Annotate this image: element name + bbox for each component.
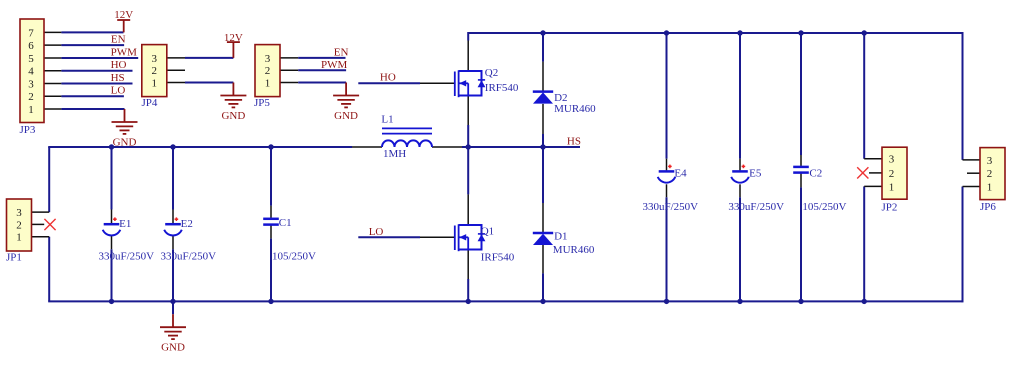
wire E2 top lead bbox=[172, 147, 174, 210]
capacitor E1 bbox=[103, 217, 121, 235]
pin D2 anode pin bbox=[542, 104, 544, 134]
pin E1 bottom pin bbox=[111, 235, 113, 249]
wire JP4 pin 3 to 12V bbox=[185, 57, 233, 59]
pin JP4 pin 1 stub bbox=[167, 82, 185, 84]
pin Q2 source bbox=[467, 95, 469, 125]
pin L1 left pin bbox=[352, 146, 382, 148]
svg-text:LO: LO bbox=[111, 85, 126, 97]
svg-text:2: 2 bbox=[889, 168, 895, 180]
junction bottom rail x=666.5 bbox=[664, 299, 669, 304]
wire E4 top lead bbox=[666, 33, 668, 159]
power 12V (JP3 pin 7) bbox=[114, 9, 133, 33]
svg-text:3: 3 bbox=[152, 53, 158, 65]
svg-text:1: 1 bbox=[152, 77, 158, 89]
svg-text:GND: GND bbox=[334, 110, 358, 122]
transistor Q2 bbox=[455, 70, 486, 97]
wire Q1 drain from HS bbox=[467, 147, 469, 194]
wire JP5 pin 1 to GND bbox=[298, 82, 346, 84]
svg-text:E1: E1 bbox=[119, 218, 131, 230]
pin D1 anode pin bbox=[542, 243, 544, 273]
no-connect X on JP1 pin 2 bbox=[44, 219, 55, 230]
pin JP1 pin 3 stub bbox=[32, 211, 50, 213]
pin E4 top pin bbox=[666, 159, 668, 171]
svg-text:C1: C1 bbox=[279, 217, 292, 229]
wire JP6 pin 1 down to bottom rail bbox=[962, 187, 964, 303]
junction top rail x=864.2 bbox=[862, 30, 867, 35]
pin E2 bottom pin bbox=[172, 235, 174, 249]
pin Q1 drain bbox=[467, 194, 469, 224]
wire HO to Q2 gate bbox=[358, 82, 420, 84]
pin Q1 gate pin bbox=[420, 236, 454, 238]
junction HS rail x=111.5 bbox=[109, 144, 114, 149]
junction HS rail x=468.2 bbox=[466, 144, 471, 149]
svg-text:12V: 12V bbox=[114, 9, 133, 21]
svg-text:EN: EN bbox=[111, 34, 126, 46]
pin JP5 pin 3 stub bbox=[280, 57, 298, 59]
pin Q2 drain bbox=[467, 41, 469, 71]
junction bottom rail x=173 bbox=[170, 299, 175, 304]
junction bottom rail x=468.2 bbox=[466, 299, 471, 304]
svg-text:1: 1 bbox=[987, 181, 993, 193]
svg-text:3: 3 bbox=[28, 78, 34, 90]
capacitor E5 bbox=[731, 165, 749, 183]
wire JP3 pin 7 bbox=[61, 31, 123, 33]
junction top rail x=543 bbox=[540, 30, 545, 35]
junction top rail x=666.5 bbox=[664, 30, 669, 35]
svg-text:330uF/250V: 330uF/250V bbox=[161, 250, 217, 262]
wire C2 top lead bbox=[800, 33, 802, 155]
junction top rail x=740 bbox=[737, 30, 742, 35]
wire JP4 pin 1 to GND bbox=[185, 82, 233, 84]
svg-text:HO: HO bbox=[380, 72, 396, 84]
pin JP3 pin 6 stub bbox=[44, 44, 61, 46]
svg-text:PWM: PWM bbox=[111, 46, 138, 58]
svg-text:1: 1 bbox=[28, 104, 34, 116]
svg-text:3: 3 bbox=[16, 207, 22, 219]
pin JP2 pin 2 stub bbox=[869, 172, 882, 174]
wire JP5 pin 2 (PWM) bbox=[298, 69, 346, 71]
pin JP6 pin 1 stub bbox=[963, 186, 981, 188]
svg-text:330uF/250V: 330uF/250V bbox=[643, 201, 699, 213]
svg-text:3: 3 bbox=[265, 53, 271, 65]
wire left input rail lower bbox=[48, 237, 50, 302]
svg-text:HS: HS bbox=[111, 72, 125, 84]
junction bottom rail x=543 bbox=[540, 299, 545, 304]
pin E5 top pin bbox=[739, 159, 741, 171]
junction bottom rail x=111.5 bbox=[109, 299, 114, 304]
pin E5 bottom pin bbox=[739, 184, 741, 197]
connector JP3 bbox=[20, 19, 45, 136]
capacitor E4 bbox=[658, 165, 676, 183]
transistor Q1 bbox=[455, 224, 486, 251]
wire E5 top lead bbox=[739, 33, 741, 159]
svg-text:6: 6 bbox=[28, 40, 34, 52]
pin C1 bottom pin bbox=[270, 225, 272, 239]
svg-text:JP6: JP6 bbox=[980, 201, 996, 213]
svg-text:3: 3 bbox=[889, 154, 895, 166]
capacitor C1 bbox=[263, 219, 279, 225]
wire right rail down to JP6 pin 3 bbox=[962, 32, 964, 160]
wire JP3 pin 1 bbox=[61, 108, 124, 110]
power 12V (JP4 pin 3) bbox=[224, 32, 243, 58]
svg-text:1MH: 1MH bbox=[383, 148, 406, 160]
junction bottom rail x=864.2 bbox=[862, 299, 867, 304]
pin JP5 pin 1 stub bbox=[280, 82, 298, 84]
wire JP5 pin 3 (EN) bbox=[298, 57, 345, 59]
connector JP4 bbox=[142, 45, 167, 109]
svg-text:E4: E4 bbox=[674, 168, 687, 180]
wire E4 bottom lead bbox=[666, 197, 668, 301]
wire HS node segment bbox=[462, 146, 580, 148]
pin JP4 pin 3 stub bbox=[167, 57, 185, 59]
wire left input rail upper bbox=[48, 147, 50, 212]
pin JP6 pin 2 stub bbox=[967, 172, 980, 174]
wire JP3 pin 2 bbox=[61, 95, 124, 97]
pin D1 cathode pin bbox=[542, 203, 544, 233]
svg-text:IRF540: IRF540 bbox=[481, 252, 515, 264]
ground GND (JP3 pin 1) bbox=[112, 109, 138, 148]
pin C2 bottom pin bbox=[800, 173, 802, 187]
pin E4 bottom pin bbox=[666, 184, 668, 197]
pin Q1 source bbox=[467, 249, 469, 279]
svg-text:5: 5 bbox=[28, 53, 34, 65]
svg-text:IRF540: IRF540 bbox=[485, 82, 519, 94]
svg-text:Q2: Q2 bbox=[485, 67, 498, 79]
wire Q2 source to HS bbox=[467, 125, 469, 147]
wire D2 anode to HS bbox=[542, 134, 544, 147]
svg-text:MUR460: MUR460 bbox=[554, 103, 596, 115]
junction HS rail x=173 bbox=[170, 144, 175, 149]
wire C1 top lead bbox=[270, 147, 272, 206]
svg-text:E5: E5 bbox=[749, 168, 762, 180]
wire JP2 pin 3 from top rail bbox=[863, 33, 865, 159]
svg-text:2: 2 bbox=[16, 219, 22, 231]
wire D2 cathode from top rail bbox=[542, 33, 544, 62]
svg-text:HO: HO bbox=[111, 59, 127, 71]
svg-text:12V: 12V bbox=[224, 32, 243, 44]
svg-text:105/250V: 105/250V bbox=[802, 201, 846, 213]
wire JP3 pin 4 bbox=[61, 70, 132, 72]
pin Q2 gate pin bbox=[420, 82, 454, 84]
junction top rail x=801 bbox=[798, 30, 803, 35]
svg-text:D1: D1 bbox=[554, 230, 567, 242]
wire JP2 pin 1 to bottom rail bbox=[863, 186, 865, 301]
svg-text:7: 7 bbox=[28, 27, 34, 39]
svg-text:GND: GND bbox=[221, 110, 245, 122]
wire mid input rail (node HS left) bbox=[48, 146, 352, 148]
svg-text:EN: EN bbox=[334, 46, 349, 58]
wire LO to Q1 gate bbox=[358, 236, 420, 238]
svg-text:Q1: Q1 bbox=[481, 226, 494, 238]
svg-text:JP4: JP4 bbox=[142, 97, 158, 109]
connector JP1 bbox=[6, 199, 32, 263]
wire Q2 drain from top rail bbox=[467, 32, 469, 41]
pin C1 top pin bbox=[270, 206, 272, 218]
pin JP1 pin 1 stub bbox=[32, 236, 50, 238]
wire E1 top lead bbox=[111, 147, 113, 210]
pin JP5 pin 2 stub bbox=[280, 69, 298, 71]
pin JP6 pin 3 stub bbox=[963, 159, 981, 161]
wire C1 bottom lead bbox=[270, 239, 272, 302]
svg-text:JP1: JP1 bbox=[6, 251, 22, 263]
svg-text:2: 2 bbox=[265, 65, 271, 77]
wire bottom GND tap bbox=[172, 301, 174, 314]
wire D1 cathode from HS bbox=[542, 147, 544, 203]
pin JP3 pin 3 stub bbox=[44, 82, 61, 84]
wire JP3 pin 3 bbox=[61, 82, 132, 84]
capacitor E2 bbox=[164, 217, 182, 235]
junction HS rail x=271 bbox=[268, 144, 273, 149]
pin D2 cathode pin bbox=[542, 62, 544, 92]
ground GND (JP4 pin 1) bbox=[220, 83, 246, 122]
connector JP2 bbox=[882, 147, 908, 213]
pin E1 top pin bbox=[111, 210, 113, 224]
svg-text:4: 4 bbox=[28, 66, 34, 78]
svg-text:3: 3 bbox=[987, 155, 993, 167]
wire C2 bottom lead bbox=[800, 187, 802, 301]
svg-text:D2: D2 bbox=[554, 92, 567, 104]
junction bottom rail x=740 bbox=[737, 299, 742, 304]
wire E1 bottom lead bbox=[111, 249, 113, 301]
svg-text:330uF/250V: 330uF/250V bbox=[728, 201, 784, 213]
pin JP1 pin 2 stub bbox=[32, 223, 45, 225]
svg-text:2: 2 bbox=[152, 65, 158, 77]
svg-text:330uF/250V: 330uF/250V bbox=[99, 250, 155, 262]
ground GND (bottom rail) bbox=[160, 314, 186, 353]
pin JP3 pin 7 stub bbox=[44, 31, 61, 33]
diode D2 bbox=[533, 92, 553, 104]
svg-text:GND: GND bbox=[161, 342, 185, 354]
pin JP3 pin 4 stub bbox=[44, 70, 61, 72]
svg-text:2: 2 bbox=[28, 91, 34, 103]
no-connect X on JP2 pin 2 bbox=[857, 167, 868, 178]
svg-text:JP3: JP3 bbox=[20, 124, 36, 136]
wire bottom ground rail bbox=[48, 300, 962, 302]
svg-text:L1: L1 bbox=[381, 113, 393, 125]
wire Q1 source to bottom rail bbox=[467, 279, 469, 301]
pin JP3 pin 2 stub bbox=[44, 95, 61, 97]
connector JP5 bbox=[254, 45, 280, 109]
svg-text:1: 1 bbox=[265, 77, 271, 89]
junction bottom rail x=801 bbox=[798, 299, 803, 304]
wire E2 bottom lead bbox=[172, 249, 174, 301]
ground GND (JP5 pin 1) bbox=[333, 83, 359, 122]
pin JP3 pin 5 stub bbox=[44, 57, 61, 59]
svg-text:LO: LO bbox=[369, 226, 384, 238]
svg-text:1: 1 bbox=[16, 232, 22, 244]
svg-text:105/250V: 105/250V bbox=[272, 250, 316, 262]
svg-text:MUR460: MUR460 bbox=[553, 244, 595, 256]
junction HS rail x=543 bbox=[540, 144, 545, 149]
diode D1 bbox=[533, 233, 553, 245]
pin JP2 pin 1 stub bbox=[864, 185, 882, 187]
wire top output rail bbox=[468, 32, 962, 34]
wire D1 anode to bottom rail bbox=[542, 273, 544, 301]
pin C2 top pin bbox=[800, 155, 802, 166]
inductor L1 bbox=[381, 113, 432, 160]
svg-text:HS: HS bbox=[567, 135, 581, 147]
pin JP3 pin 1 stub bbox=[44, 108, 61, 110]
svg-text:PWM: PWM bbox=[321, 59, 348, 71]
capacitor C2 bbox=[793, 167, 809, 173]
pin L1 right pin bbox=[432, 146, 462, 148]
connector JP6 bbox=[980, 148, 1005, 213]
svg-text:E2: E2 bbox=[181, 218, 193, 230]
pin E2 top pin bbox=[172, 210, 174, 224]
svg-text:1: 1 bbox=[889, 181, 895, 193]
svg-text:2: 2 bbox=[987, 168, 993, 180]
svg-text:JP2: JP2 bbox=[882, 201, 898, 213]
svg-text:JP5: JP5 bbox=[254, 97, 270, 109]
junction bottom rail x=271 bbox=[268, 299, 273, 304]
svg-text:GND: GND bbox=[113, 136, 137, 148]
svg-text:C2: C2 bbox=[809, 168, 822, 180]
pin JP2 pin 3 stub bbox=[864, 158, 882, 160]
wire JP3 pin 5 bbox=[61, 57, 138, 59]
wire E5 bottom lead bbox=[739, 197, 741, 301]
wire JP3 pin 6 bbox=[61, 44, 124, 46]
pin JP4 pin 2 stub bbox=[167, 69, 185, 71]
